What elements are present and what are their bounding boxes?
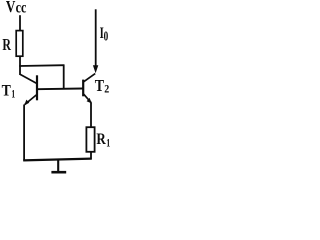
svg-text:1: 1 — [11, 87, 15, 101]
svg-text:T: T — [2, 83, 11, 100]
Vcc supply label — [6, 0, 27, 16]
svg-text:R: R — [96, 131, 106, 148]
current source arrow I0 — [93, 9, 98, 73]
wire base rail T1 to T2 — [37, 88, 83, 91]
label R1 — [96, 131, 110, 149]
transistor T2 — [83, 74, 95, 104]
svg-text:T: T — [95, 76, 104, 95]
wire T1 emitter to ground rail — [23, 105, 25, 161]
svg-text:R: R — [2, 35, 11, 54]
transistor T1 — [20, 74, 37, 105]
label I0 — [100, 25, 109, 44]
resistor R1 — [86, 127, 94, 152]
svg-text:2: 2 — [104, 82, 109, 96]
wire R to node A — [19, 56, 21, 75]
svg-text:1: 1 — [106, 135, 110, 149]
wire Vcc stub — [19, 15, 21, 31]
wire node A to base rail (top branch) — [19, 65, 64, 89]
resistor R — [16, 31, 23, 57]
label T2 — [95, 76, 110, 96]
svg-text:cc: cc — [16, 0, 27, 16]
svg-text:0: 0 — [104, 28, 109, 43]
ground — [51, 160, 66, 173]
ground rail wire — [23, 159, 91, 161]
wire T2 emitter to R1 — [90, 103, 92, 128]
svg-text:V: V — [6, 0, 16, 16]
label T1 — [2, 83, 16, 101]
wire R1 to ground rail — [90, 152, 92, 160]
